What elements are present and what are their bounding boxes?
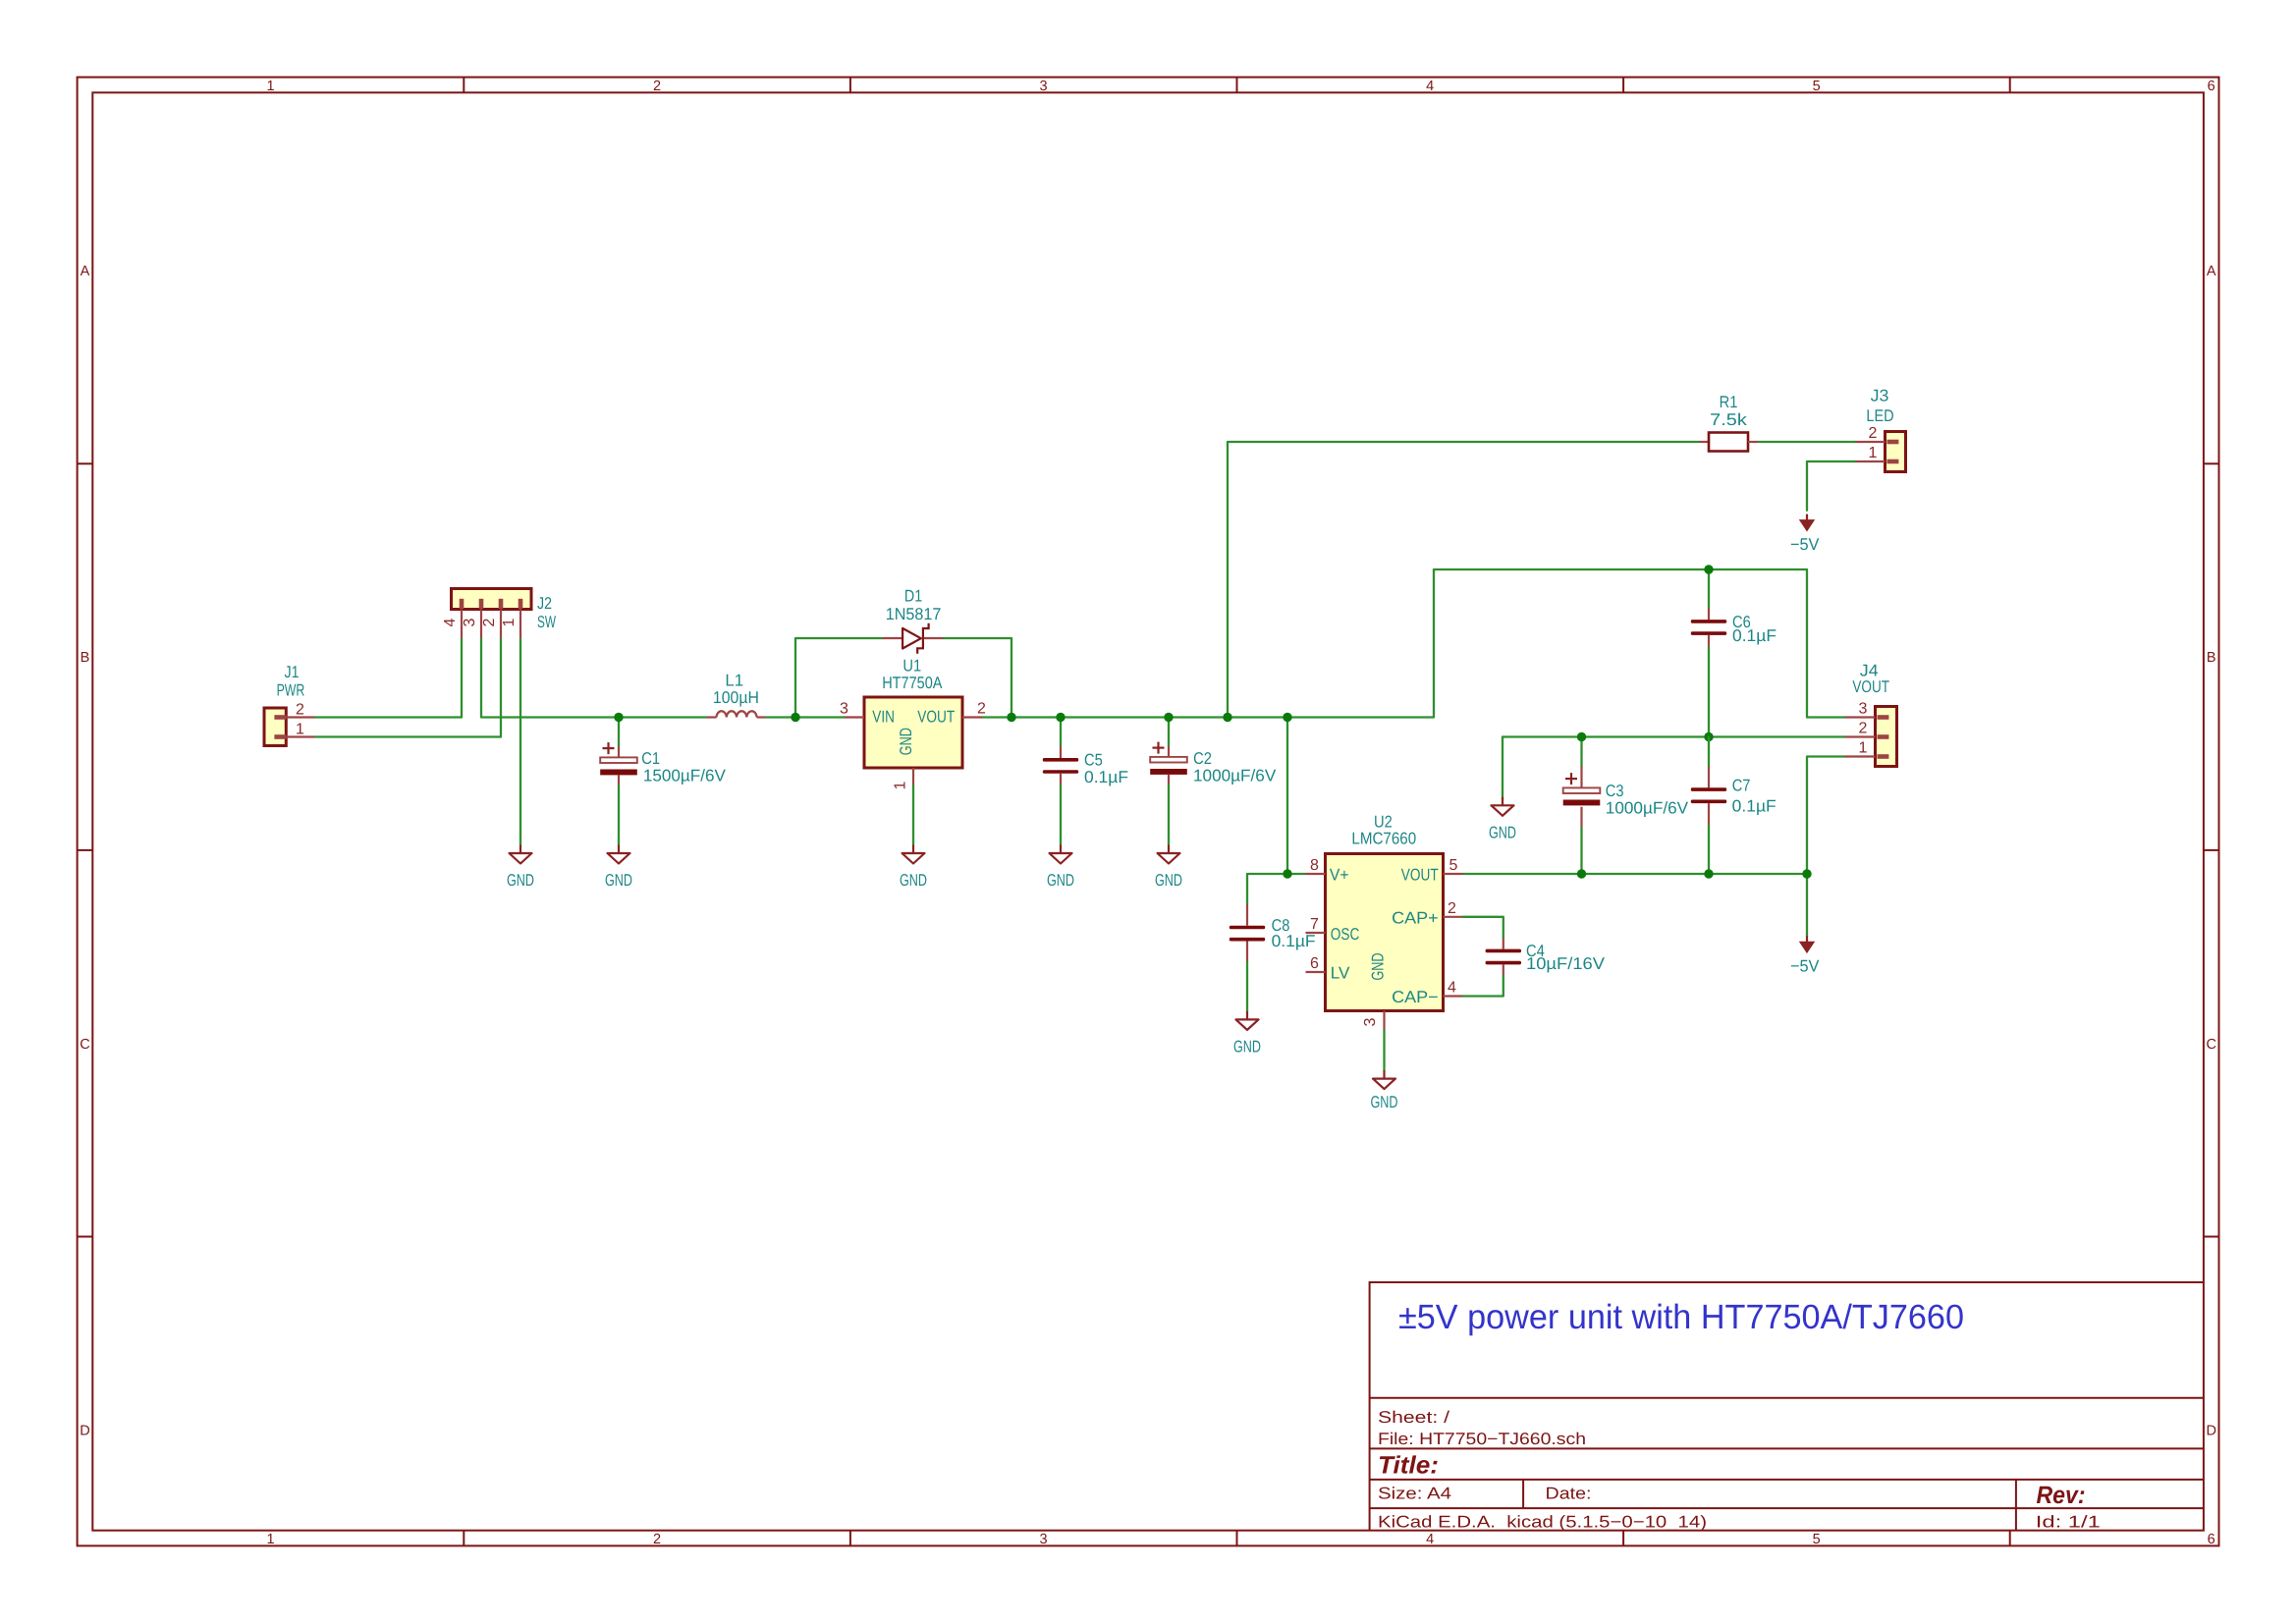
ground GND (J2.1) bbox=[519, 845, 521, 854]
svg-text:6: 6 bbox=[2208, 79, 2215, 94]
svg-text:1500µF/6V: 1500µF/6V bbox=[643, 767, 727, 785]
svg-text:A: A bbox=[2207, 264, 2216, 280]
svg-text:C7: C7 bbox=[1732, 777, 1751, 795]
svg-text:GND: GND bbox=[1233, 1037, 1261, 1055]
capacitor C4 bbox=[1486, 938, 1521, 975]
svg-text:C1: C1 bbox=[641, 749, 660, 768]
svg-text:3: 3 bbox=[462, 618, 478, 626]
svg-text:File: HT7750−TJ660.sch: File: HT7750−TJ660.sch bbox=[1378, 1430, 1586, 1448]
wire D1 branch left bbox=[795, 638, 883, 718]
junction C3 top bbox=[1577, 732, 1586, 741]
svg-text:1: 1 bbox=[893, 781, 909, 789]
svg-text:B: B bbox=[2207, 650, 2216, 666]
svg-text:10µF/16V: 10µF/16V bbox=[1526, 954, 1606, 973]
svg-text:1: 1 bbox=[1859, 740, 1868, 757]
svg-text:Rev:: Rev: bbox=[2037, 1482, 2086, 1509]
wire U2.VOUT -5V net bbox=[1463, 873, 1808, 875]
junction C6 bottom bbox=[1704, 732, 1713, 741]
wire main net L1 to U1.VIN bbox=[766, 716, 845, 718]
wire C6 net to J4.3 bbox=[1434, 569, 1845, 718]
svg-text:5: 5 bbox=[1449, 857, 1458, 874]
svg-text:U1: U1 bbox=[902, 657, 921, 676]
svg-text:4: 4 bbox=[1448, 980, 1456, 997]
svg-text:C2: C2 bbox=[1193, 749, 1212, 768]
junction D1 right bbox=[1007, 713, 1015, 722]
svg-text:2: 2 bbox=[1869, 425, 1878, 442]
svg-text:D: D bbox=[2206, 1423, 2215, 1438]
svg-text:GND: GND bbox=[1047, 871, 1074, 890]
svg-text:J2: J2 bbox=[537, 594, 552, 613]
svg-text:R1: R1 bbox=[1720, 393, 1738, 411]
svg-text:V+: V+ bbox=[1330, 866, 1349, 885]
svg-text:1: 1 bbox=[1869, 445, 1878, 461]
junction C5 bbox=[1056, 713, 1065, 722]
svg-text:6: 6 bbox=[2208, 1532, 2215, 1547]
wire J1.1 to J2.2 bbox=[314, 638, 501, 737]
svg-text:1: 1 bbox=[501, 618, 518, 626]
svg-text:CAP+: CAP+ bbox=[1392, 909, 1439, 928]
svg-text:1000µF/6V: 1000µF/6V bbox=[1606, 799, 1689, 818]
capacitor C5 bbox=[1043, 718, 1078, 845]
svg-text:0.1µF: 0.1µF bbox=[1084, 768, 1128, 786]
svg-text:CAP−: CAP− bbox=[1392, 988, 1439, 1006]
wire J2.1 to GND bbox=[519, 638, 521, 845]
junction C1 main net bbox=[614, 713, 623, 722]
svg-text:1: 1 bbox=[296, 722, 304, 738]
svg-text:4: 4 bbox=[1426, 79, 1434, 94]
svg-text:2: 2 bbox=[1448, 900, 1456, 917]
resistor R1 7.5k bbox=[1699, 433, 1758, 452]
ground GND (C2) bbox=[1168, 845, 1170, 854]
svg-text:3: 3 bbox=[1859, 701, 1868, 718]
svg-text:5: 5 bbox=[1813, 79, 1821, 94]
svg-text:2: 2 bbox=[977, 701, 986, 718]
svg-text:4: 4 bbox=[442, 618, 459, 626]
svg-text:GND: GND bbox=[900, 871, 927, 890]
wire U2 CAP+ to C4 bbox=[1463, 917, 1503, 939]
svg-text:GND: GND bbox=[507, 871, 534, 890]
wire -5V net to power arrow bbox=[1806, 874, 1808, 936]
svg-text:2: 2 bbox=[1859, 721, 1868, 737]
wire J2.3 to main net bbox=[481, 638, 706, 718]
junction -5V net J4.1 bbox=[1802, 869, 1811, 878]
svg-text:6: 6 bbox=[1310, 955, 1319, 972]
svg-text:3: 3 bbox=[1040, 1532, 1048, 1547]
IC U1 HT7750A bbox=[845, 697, 982, 786]
svg-text:Size: A4: Size: A4 bbox=[1378, 1485, 1451, 1503]
svg-text:Date:: Date: bbox=[1546, 1485, 1592, 1503]
svg-text:3: 3 bbox=[1040, 79, 1048, 94]
svg-text:1000µF/6V: 1000µF/6V bbox=[1193, 766, 1277, 784]
connector J2 bbox=[452, 589, 532, 639]
svg-text:LMC7660: LMC7660 bbox=[1351, 829, 1416, 847]
capacitor C3 bbox=[1563, 737, 1601, 875]
svg-text:GND: GND bbox=[1369, 953, 1388, 981]
svg-text:−5V: −5V bbox=[1790, 957, 1820, 976]
svg-text:KiCad E.D.A. kicad (5.1.5−0−1: KiCad E.D.A. kicad (5.1.5−0−10_14) bbox=[1378, 1512, 1707, 1531]
capacitor C1 bbox=[600, 718, 637, 845]
svg-text:C: C bbox=[80, 1037, 89, 1053]
power -5V (U2 VOUT) bbox=[1806, 936, 1808, 942]
svg-text:Sheet: /: Sheet: / bbox=[1378, 1408, 1449, 1427]
svg-text:D1: D1 bbox=[904, 587, 922, 606]
ground GND (C8) bbox=[1246, 1011, 1248, 1020]
junction U2 branch bbox=[1283, 713, 1291, 722]
svg-text:±5V power unit with HT7750A/TJ: ±5V power unit with HT7750A/TJ7660 bbox=[1398, 1298, 1964, 1336]
power -5V (J3) bbox=[1806, 514, 1808, 520]
svg-text:A: A bbox=[81, 264, 90, 280]
svg-text:PWR: PWR bbox=[277, 681, 305, 700]
svg-text:2: 2 bbox=[481, 618, 498, 626]
title block bbox=[1370, 1282, 2204, 1531]
svg-text:5: 5 bbox=[1813, 1532, 1821, 1547]
capacitor C7 bbox=[1691, 737, 1726, 875]
capacitor C6 bbox=[1691, 569, 1726, 737]
svg-text:8: 8 bbox=[1310, 857, 1319, 874]
svg-text:HT7750A: HT7750A bbox=[882, 674, 943, 692]
junction C3 bottom bbox=[1577, 869, 1586, 878]
svg-text:LED: LED bbox=[1866, 406, 1893, 425]
svg-text:GND: GND bbox=[897, 728, 915, 755]
capacitor C2 bbox=[1150, 718, 1187, 845]
ground GND (C3 net) bbox=[1502, 797, 1503, 806]
wire C4 to U2 CAP- bbox=[1463, 976, 1503, 997]
svg-text:GND: GND bbox=[605, 871, 632, 890]
wire GND net corner down bbox=[1502, 737, 1503, 799]
junction C6 top bbox=[1704, 565, 1713, 573]
inductor L1 bbox=[706, 711, 765, 717]
svg-text:VOUT: VOUT bbox=[917, 707, 955, 726]
svg-text:J3: J3 bbox=[1871, 386, 1889, 405]
svg-text:LV: LV bbox=[1331, 964, 1350, 983]
svg-text:B: B bbox=[81, 650, 90, 666]
svg-text:C3: C3 bbox=[1606, 782, 1624, 800]
svg-text:7: 7 bbox=[1310, 916, 1319, 933]
svg-text:C: C bbox=[2206, 1037, 2215, 1053]
ground GND (C5) bbox=[1060, 845, 1062, 854]
svg-text:GND: GND bbox=[1155, 871, 1182, 890]
wire J3.1 to -5V bbox=[1807, 461, 1856, 511]
svg-text:0.1µF: 0.1µF bbox=[1732, 626, 1777, 645]
wire main net U1.VOUT to C6 net corner bbox=[982, 569, 1434, 718]
ground GND (U2) bbox=[1383, 1070, 1385, 1079]
svg-text:OSC: OSC bbox=[1331, 925, 1360, 944]
svg-text:2: 2 bbox=[296, 702, 304, 719]
svg-text:VOUT: VOUT bbox=[1401, 866, 1439, 885]
svg-text:VIN: VIN bbox=[872, 707, 895, 726]
svg-text:−5V: −5V bbox=[1790, 535, 1820, 554]
svg-text:0.1µF: 0.1µF bbox=[1272, 932, 1316, 950]
connector J3 bbox=[1856, 432, 1906, 472]
svg-text:2: 2 bbox=[653, 79, 661, 94]
diode D1 1N5817 bbox=[883, 623, 944, 654]
svg-text:Title:: Title: bbox=[1378, 1452, 1439, 1480]
junction C7 bottom bbox=[1704, 869, 1713, 878]
svg-text:Id: 1/1: Id: 1/1 bbox=[2036, 1512, 2101, 1531]
wire J1.2 to J2.4 bbox=[314, 638, 462, 718]
IC U2 LMC7660 bbox=[1306, 854, 1463, 1031]
connector J1 bbox=[264, 708, 314, 746]
wire R1 to J3.2 bbox=[1758, 441, 1856, 443]
wire U1.1 to GND bbox=[912, 786, 914, 845]
wire U2.3 to GND bbox=[1383, 1030, 1385, 1070]
wire GND net to J4.2 bbox=[1503, 735, 1845, 737]
connector J4 bbox=[1845, 707, 1897, 767]
junction L1/D1 branch bbox=[791, 713, 799, 722]
wire U2 V+ branch bbox=[1287, 718, 1306, 875]
svg-text:C5: C5 bbox=[1084, 750, 1103, 769]
svg-text:0.1µF: 0.1µF bbox=[1732, 796, 1777, 815]
svg-text:3: 3 bbox=[840, 701, 848, 718]
svg-text:D: D bbox=[80, 1423, 89, 1438]
wire R1 branch vertical bbox=[1228, 442, 1699, 718]
svg-text:2: 2 bbox=[653, 1532, 661, 1547]
ground GND (C1) bbox=[618, 845, 620, 854]
svg-text:1N5817: 1N5817 bbox=[886, 605, 942, 623]
svg-text:3: 3 bbox=[1362, 1017, 1379, 1026]
wire J4.1 down bbox=[1807, 757, 1845, 875]
svg-text:L1: L1 bbox=[725, 672, 743, 690]
wire C8 branch bbox=[1247, 874, 1287, 904]
capacitor C8 bbox=[1230, 904, 1265, 1011]
svg-text:7.5k: 7.5k bbox=[1710, 410, 1747, 429]
svg-text:GND: GND bbox=[1371, 1093, 1398, 1111]
svg-text:1: 1 bbox=[266, 79, 274, 94]
junction R1 branch bbox=[1223, 713, 1231, 722]
svg-text:1: 1 bbox=[266, 1532, 274, 1547]
svg-text:100µH: 100µH bbox=[713, 688, 759, 707]
svg-text:SW: SW bbox=[537, 613, 556, 631]
ground GND (U1) bbox=[912, 845, 914, 854]
svg-text:J1: J1 bbox=[285, 663, 300, 681]
svg-text:VOUT: VOUT bbox=[1852, 677, 1889, 696]
svg-text:GND: GND bbox=[1489, 823, 1516, 841]
junction U2 V+ bbox=[1283, 869, 1291, 878]
junction C2 bbox=[1164, 713, 1173, 722]
svg-text:4: 4 bbox=[1426, 1532, 1434, 1547]
wire D1 branch right bbox=[943, 638, 1011, 718]
